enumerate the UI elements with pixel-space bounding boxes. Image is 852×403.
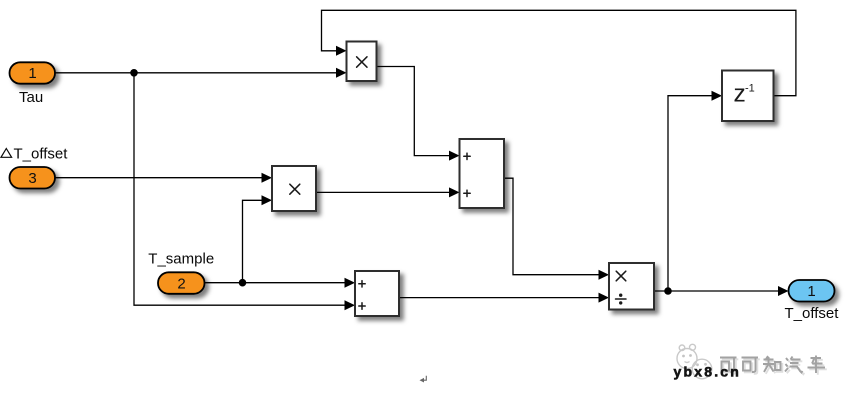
svg-text:T_offset: T_offset bbox=[785, 305, 840, 322]
svg-text:1: 1 bbox=[28, 65, 36, 82]
svg-text:Tau: Tau bbox=[19, 89, 43, 106]
svg-text:-1: -1 bbox=[745, 83, 755, 95]
svg-text:ybx8.cn: ybx8.cn bbox=[674, 364, 742, 380]
svg-text:T_offset: T_offset bbox=[14, 146, 69, 163]
svg-text:T_sample: T_sample bbox=[148, 250, 214, 267]
svg-text:2: 2 bbox=[177, 275, 185, 292]
svg-text:z: z bbox=[734, 81, 746, 108]
svg-text:1: 1 bbox=[807, 283, 815, 300]
svg-text:3: 3 bbox=[28, 170, 36, 187]
